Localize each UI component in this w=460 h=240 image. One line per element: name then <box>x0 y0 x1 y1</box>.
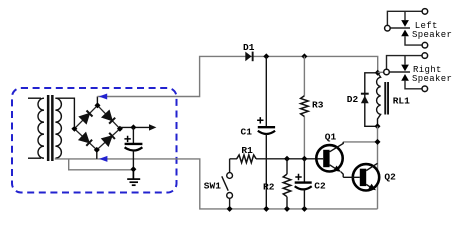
terminal: left speaker common <box>385 25 391 31</box>
node: C2 ground <box>301 206 307 212</box>
svg-text:Speaker: Speaker <box>412 30 452 40</box>
node: R2 top junction <box>284 156 290 162</box>
wire: SW1 bottom lead <box>229 198 231 209</box>
terminal: right speaker bottom <box>422 86 428 92</box>
switch SW1 <box>227 173 233 179</box>
diode D1 <box>245 52 253 62</box>
transistor Q1 <box>316 142 343 177</box>
terminal: right speaker tip <box>422 53 428 59</box>
node: C1 ground <box>263 206 269 212</box>
terminal: right speaker common <box>384 69 390 75</box>
node: bridge AC left <box>71 126 77 132</box>
node: SW1 ground <box>227 206 233 212</box>
node: R2 ground <box>284 206 290 212</box>
svg-text:C2: C2 <box>314 180 326 191</box>
label: C2 + <box>295 174 301 180</box>
transistor Q2 <box>343 163 379 190</box>
diode D2 <box>361 93 369 104</box>
svg-text:RL1: RL1 <box>393 96 410 107</box>
node: bridge positive top <box>95 102 101 108</box>
node: relay bottom / D2 <box>375 123 381 129</box>
wire: branch to filter cap negative / ground <box>69 159 134 170</box>
bridge rectifier frame <box>74 105 120 149</box>
capacitor C1 plates <box>258 126 275 128</box>
arrow: blue current arrow on +V line <box>99 94 107 100</box>
capacitor C2 top lead <box>303 159 305 182</box>
ground symbol <box>127 169 140 185</box>
svg-text:R1: R1 <box>241 145 253 156</box>
connector: left speaker jack <box>387 11 422 45</box>
connector: right speaker jack <box>387 56 423 89</box>
node: collector junction <box>375 139 381 145</box>
wire: bridge positive output to top rail <box>97 56 377 96</box>
wire: bridge right corner to filter cap top <box>120 126 149 128</box>
bridge diode (left-top) <box>80 111 92 123</box>
capacitor C (filter) bottom lead <box>132 151 134 170</box>
resistor R2 <box>283 174 291 197</box>
terminal: left speaker tip <box>422 9 428 15</box>
wire: 0V line from secondary bottom to bottom rail <box>55 158 377 209</box>
node: filter cap top junction <box>130 124 136 130</box>
transformer T1 core <box>47 95 54 161</box>
wire: relay bottom to collectors <box>377 126 379 209</box>
relay RL1 core <box>384 82 389 115</box>
capacitor C1 lead from top rail <box>265 56 267 126</box>
capacitor C (filter) plates <box>125 143 143 145</box>
capacitor C1 bottom lead to ground rail <box>265 134 267 209</box>
transformer T1 secondary winding <box>55 98 61 158</box>
svg-text:Q1: Q1 <box>325 132 337 143</box>
svg-text:C1: C1 <box>241 127 253 138</box>
node: D1 cathode / C1 junction <box>263 53 269 59</box>
capacitor C2 plates <box>295 181 312 183</box>
svg-text:SW1: SW1 <box>204 181 221 192</box>
bridge diode (right-bottom) <box>103 133 115 145</box>
terminal: left speaker bottom <box>422 42 428 48</box>
capacitor C (filter) top lead <box>132 127 134 143</box>
resistor R1 <box>237 155 256 163</box>
svg-text:D1: D1 <box>243 42 255 53</box>
bridge diode (left-bottom) <box>80 134 92 146</box>
arrow: +V output arrow <box>149 124 156 130</box>
wire: collector line to Q1 <box>343 141 377 143</box>
wire: bridge positive stub <box>96 97 98 106</box>
svg-text:Q2: Q2 <box>384 172 396 183</box>
wire: relay node to right speaker common <box>378 71 384 73</box>
label: C1 + <box>257 117 263 123</box>
label: filter cap + <box>124 136 130 142</box>
resistor R3 lead <box>303 56 305 158</box>
wire: primary top lead <box>28 97 41 99</box>
wire: D2 branch <box>365 73 378 127</box>
svg-text:R3: R3 <box>312 99 324 110</box>
wire: secondary top lead to bridge AC node <box>55 98 74 126</box>
node: R3/C2 junction <box>301 156 307 162</box>
capacitor C2 bottom lead <box>303 189 305 209</box>
svg-text:R2: R2 <box>263 182 275 193</box>
node: bridge negative bottom <box>94 147 100 153</box>
node: bridge right <box>117 126 123 132</box>
svg-text:Speaker: Speaker <box>412 74 452 84</box>
enclosure: power-supply dashed box <box>12 88 177 193</box>
wire: primary bottom lead <box>28 157 41 159</box>
arrow: blue current arrow on 0V line <box>99 156 107 162</box>
relay RL1 coil <box>377 73 381 127</box>
wire: SW1 top lead <box>229 159 231 173</box>
wire: bridge negative stub <box>96 150 98 159</box>
resistor R3 <box>301 96 309 117</box>
wire: R1 to Q1 base line <box>230 158 318 160</box>
resistor R2 leads <box>286 159 288 209</box>
transformer T1 primary winding <box>38 98 44 158</box>
svg-text:D2: D2 <box>347 94 359 105</box>
node: R3 top junction <box>301 53 307 59</box>
node: cap negative / ground junction <box>130 166 136 172</box>
node: relay top / +V <box>375 70 381 76</box>
bridge diode (right-top) <box>103 111 115 123</box>
